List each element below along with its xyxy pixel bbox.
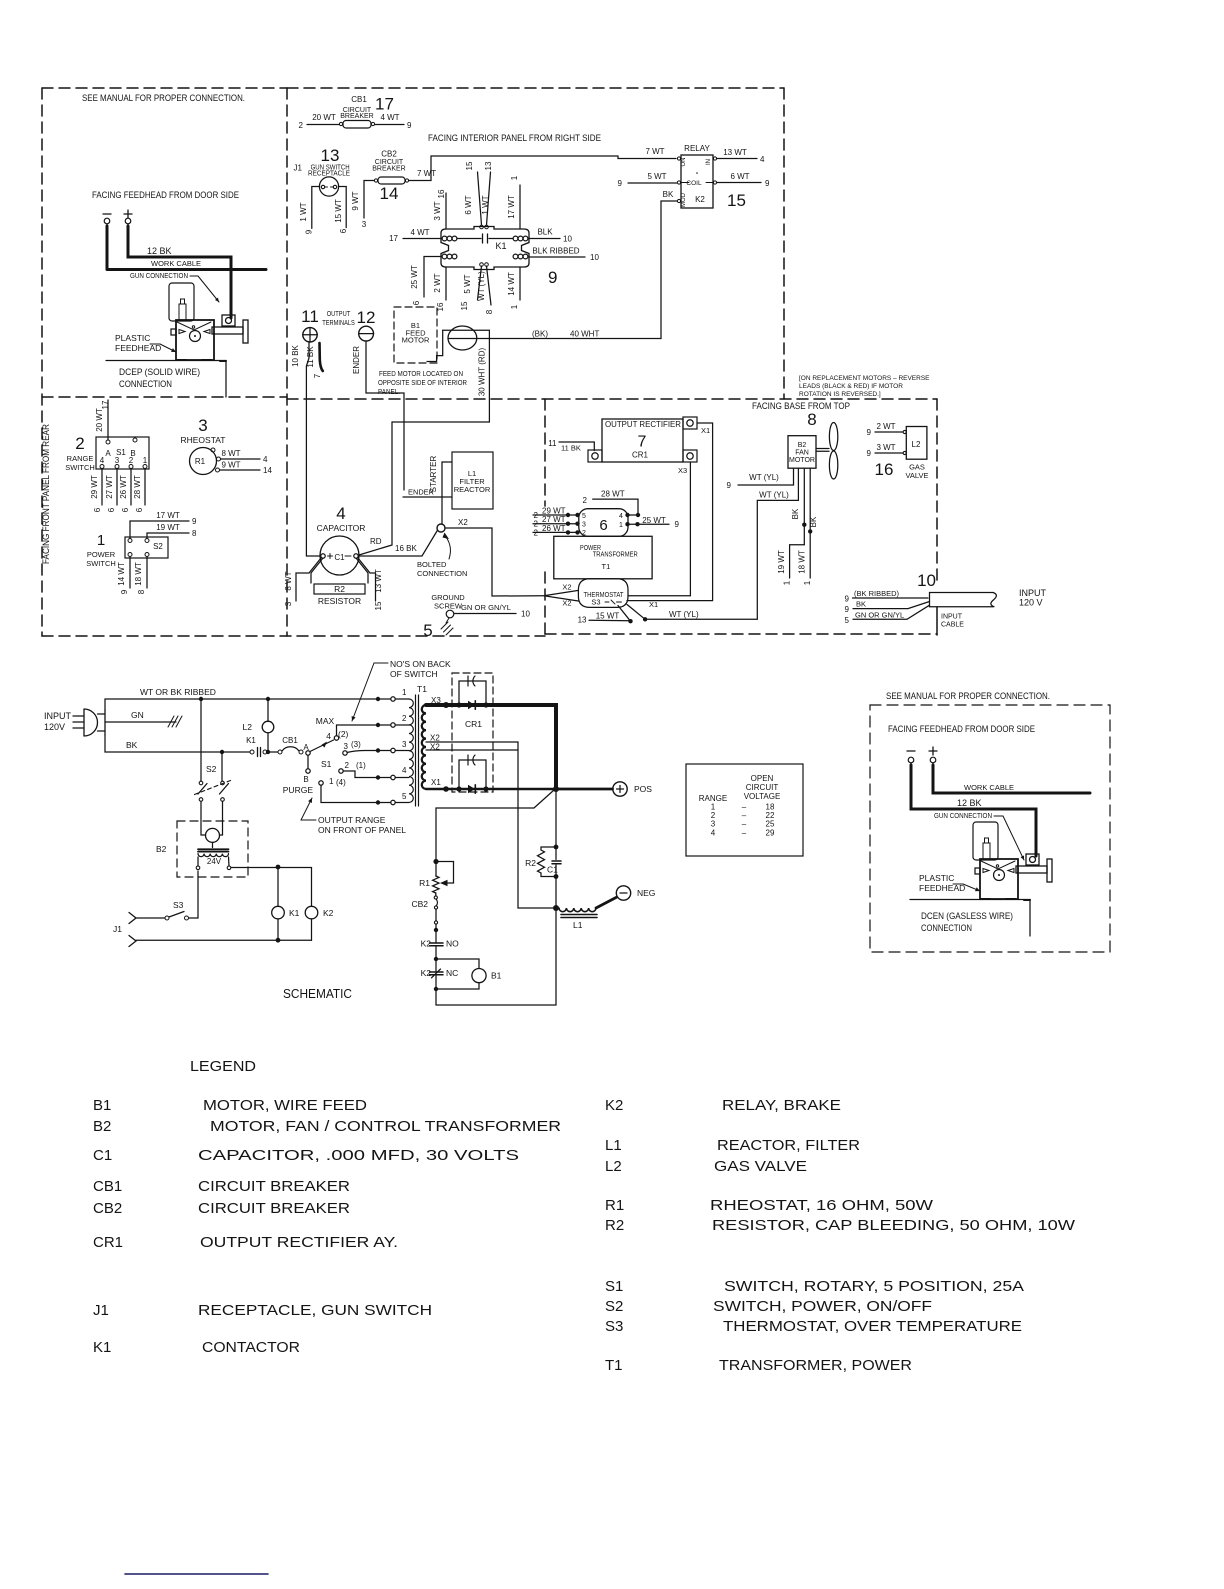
wire WT OR BK RIBBED	[105, 699, 378, 710]
svg-text:15: 15	[374, 601, 383, 610]
svg-text:7 WT: 7 WT	[645, 147, 664, 156]
svg-text:S1: S1	[321, 759, 332, 769]
svg-text:RD: RD	[370, 537, 382, 546]
thermostat S3	[544, 468, 799, 621]
snubber R2 / C1	[541, 789, 561, 905]
svg-text:2: 2	[402, 714, 407, 723]
svg-text:BOLTED: BOLTED	[417, 560, 447, 569]
svg-text:FACING BASE FROM TOP: FACING BASE FROM TOP	[752, 401, 850, 412]
svg-text:BK: BK	[126, 740, 138, 750]
svg-text:MOTOR: MOTOR	[789, 457, 815, 464]
wire 17 WT / 1 top-right	[519, 185, 521, 229]
wire 10 BK down to capacitor	[306, 342, 320, 556]
terminal +	[929, 750, 937, 752]
svg-text:8: 8	[807, 410, 816, 429]
svg-text:10: 10	[521, 610, 530, 619]
svg-text:1: 1	[97, 532, 105, 549]
svg-text:DCEP (SOLID WIRE): DCEP (SOLID WIRE)	[119, 367, 200, 378]
svg-text:28 WT: 28 WT	[133, 475, 142, 499]
svg-text:RANGE: RANGE	[67, 454, 94, 463]
svg-text:OUTPUT RECTIFIER: OUTPUT RECTIFIER	[605, 419, 681, 429]
rheostat R1	[436, 862, 454, 887]
wire work cable	[933, 765, 1090, 793]
baseline	[106, 360, 226, 362]
svg-text:7 WT: 7 WT	[417, 169, 436, 178]
baseline	[910, 899, 1030, 901]
svg-text:PLASTIC: PLASTIC	[115, 333, 150, 343]
svg-text:R1: R1	[605, 1197, 624, 1214]
svg-text:SEE MANUAL FOR PROPER CONNECTI: SEE MANUAL FOR PROPER CONNECTION.	[82, 93, 245, 104]
svg-text:SWITCH, ROTARY, 5 POSITION, 25: SWITCH, ROTARY, 5 POSITION, 25A	[724, 1278, 1024, 1295]
svg-text:CR1: CR1	[93, 1234, 123, 1251]
wire BK to motor	[661, 201, 677, 339]
svg-text:L2: L2	[912, 440, 921, 449]
svg-text:CB1: CB1	[351, 95, 367, 104]
svg-text:29: 29	[766, 828, 775, 837]
svg-text:15: 15	[460, 301, 469, 310]
svg-text:TERMINALS: TERMINALS	[322, 320, 355, 327]
svg-text:9: 9	[120, 589, 129, 594]
svg-text:18 WT: 18 WT	[798, 550, 807, 574]
svg-text:WORK CABLE: WORK CABLE	[151, 259, 201, 268]
svg-text:17: 17	[101, 400, 110, 409]
svg-text:RELAY, BRAKE: RELAY, BRAKE	[722, 1097, 841, 1114]
svg-text:1 WT: 1 WT	[299, 202, 308, 221]
terminal POS	[613, 782, 627, 796]
svg-text:3 WT: 3 WT	[433, 201, 442, 220]
svg-text:6: 6	[412, 300, 421, 305]
svg-text:VALVE: VALVE	[905, 471, 928, 480]
svg-text:BK: BK	[791, 508, 800, 519]
svg-text:WORK CABLE: WORK CABLE	[964, 783, 1014, 792]
svg-text:9: 9	[675, 520, 680, 529]
svg-text:GUN CONNECTION: GUN CONNECTION	[130, 273, 188, 280]
svg-text:WT (YL): WT (YL)	[759, 491, 789, 500]
svg-text:4: 4	[326, 731, 331, 741]
wire BLK / 10	[529, 238, 560, 240]
svg-text:15 WT: 15 WT	[596, 611, 620, 620]
gas valve L2 (16)	[875, 427, 927, 460]
wire 8 WT / 4	[221, 458, 261, 460]
svg-text:BREAKER: BREAKER	[372, 165, 405, 172]
svg-text:LEGEND: LEGEND	[190, 1058, 256, 1075]
DCEN connection box	[870, 705, 1110, 952]
svg-text:12 BK: 12 BK	[147, 246, 172, 256]
svg-text:6: 6	[121, 507, 130, 512]
svg-text:L1: L1	[573, 920, 583, 930]
svg-text:11: 11	[301, 307, 319, 326]
wire 5 WT / 15 bottom	[478, 266, 482, 300]
svg-text:J1: J1	[93, 1302, 109, 1319]
svg-text:PANEL.: PANEL.	[378, 387, 400, 396]
S1 pos (2) wire	[337, 725, 379, 736]
wire 17 WT / 9	[130, 521, 189, 539]
svg-text:2: 2	[345, 761, 350, 770]
svg-text:–: –	[742, 828, 747, 837]
svg-text:R2: R2	[334, 584, 345, 594]
terminal NEG	[616, 886, 630, 900]
wire 5 WT	[628, 182, 677, 184]
svg-text:6: 6	[599, 517, 607, 534]
svg-text:S3: S3	[173, 900, 184, 910]
svg-text:R2: R2	[605, 1217, 624, 1234]
svg-text:DCEN (GASLESS WIRE): DCEN (GASLESS WIRE)	[921, 911, 1013, 922]
switch S2 schematic	[195, 699, 231, 835]
svg-text:BREAKER: BREAKER	[340, 113, 373, 120]
svg-text:16: 16	[875, 460, 894, 479]
svg-text:(3): (3)	[351, 740, 361, 749]
svg-text:15 WT: 15 WT	[334, 199, 343, 223]
svg-text:K1: K1	[93, 1339, 111, 1356]
svg-text:1: 1	[329, 777, 334, 786]
svg-text:RHEOSTAT: RHEOSTAT	[180, 435, 225, 445]
svg-text:CB2: CB2	[93, 1200, 122, 1217]
svg-text:4: 4	[711, 828, 716, 837]
svg-text:ON FRONT OF PANEL: ON FRONT OF PANEL	[318, 825, 406, 835]
wire GN OR GN/YL / 10	[454, 613, 516, 615]
motor/transformer B2 schematic	[177, 821, 248, 877]
svg-text:8: 8	[192, 529, 197, 538]
svg-text:BK: BK	[809, 516, 818, 527]
svg-text:X2: X2	[562, 583, 571, 592]
svg-text:PURGE: PURGE	[283, 785, 314, 795]
wire 2 WT / 16 bottom	[445, 267, 447, 300]
svg-text:28 WT: 28 WT	[601, 490, 625, 499]
svg-text:L1: L1	[605, 1137, 622, 1154]
motor B1	[436, 911, 556, 1005]
X2 chevron arrow	[544, 590, 579, 601]
svg-text:ENDER: ENDER	[352, 346, 361, 374]
svg-text:CR1: CR1	[632, 451, 649, 460]
svg-text:13: 13	[578, 616, 587, 625]
svg-text:4: 4	[619, 513, 623, 520]
svg-text:X2: X2	[430, 734, 440, 743]
svg-text:14: 14	[380, 184, 399, 203]
wire 30 WHT (RD)	[392, 330, 489, 422]
svg-text:MOTOR: MOTOR	[402, 336, 430, 345]
svg-text:25 WT: 25 WT	[642, 516, 666, 525]
wire 16 BK to bolted connection	[358, 531, 437, 556]
svg-text:9: 9	[192, 517, 197, 526]
svg-text:5: 5	[845, 616, 850, 625]
svg-text:9: 9	[845, 595, 850, 604]
wire 8 WT / 3	[296, 558, 321, 601]
svg-text:9: 9	[845, 605, 850, 614]
svg-text:GN: GN	[131, 710, 144, 720]
svg-text:ENDER: ENDER	[408, 488, 435, 497]
svg-text:R2: R2	[525, 858, 536, 868]
svg-text:CAPACITOR: CAPACITOR	[317, 523, 366, 533]
T1 secondary coil	[422, 705, 426, 789]
svg-text:(1): (1)	[356, 761, 366, 770]
svg-text:19 WT: 19 WT	[777, 550, 786, 574]
bottom wire	[136, 939, 312, 941]
svg-text:17: 17	[375, 95, 394, 114]
coil K1	[272, 906, 285, 940]
svg-text:WT OR BK RIBBED: WT OR BK RIBBED	[140, 687, 216, 697]
svg-text:6: 6	[339, 228, 348, 233]
wires BK down from fan	[803, 468, 805, 545]
svg-text:2: 2	[583, 496, 588, 505]
wire 20 WT / 17	[107, 400, 109, 440]
svg-text:12: 12	[357, 308, 376, 327]
svg-text:12 BK: 12 BK	[957, 798, 982, 808]
svg-text:9: 9	[305, 229, 314, 234]
svg-text:OUTPUT RANGE: OUTPUT RANGE	[318, 815, 386, 825]
svg-text:GN OR GN/YL: GN OR GN/YL	[461, 603, 511, 612]
svg-text:WT (YL): WT (YL)	[749, 473, 779, 482]
svg-text:3: 3	[198, 416, 207, 435]
svg-text:NC: NC	[446, 968, 458, 978]
circuit breaker CB1 arc	[278, 747, 303, 754]
svg-text:29 WT: 29 WT	[90, 475, 99, 499]
wire X2 to thermostat	[445, 528, 544, 596]
svg-text:K2: K2	[421, 968, 432, 978]
svg-text:B1: B1	[93, 1097, 111, 1114]
svg-text:J1: J1	[294, 164, 303, 173]
svg-text:3: 3	[284, 601, 293, 606]
S1 pin 4	[100, 465, 104, 469]
wire GN + ground	[105, 721, 176, 723]
thermostat S3 schematic	[129, 871, 312, 947]
svg-text:INPUT: INPUT	[1019, 588, 1047, 598]
svg-text:FACING FRONT PANEL FROM REAR: FACING FRONT PANEL FROM REAR	[41, 424, 52, 564]
svg-text:SWITCH, POWER, ON/OFF: SWITCH, POWER, ON/OFF	[713, 1298, 932, 1315]
svg-text:3: 3	[362, 220, 367, 229]
svg-text:4: 4	[100, 456, 105, 465]
svg-text:3: 3	[344, 742, 349, 751]
svg-text:1: 1	[803, 580, 812, 585]
svg-text:5 WT: 5 WT	[463, 274, 472, 293]
svg-text:FACING FEEDHEAD FROM DOOR SIDE: FACING FEEDHEAD FROM DOOR SIDE	[888, 724, 1035, 735]
terminal +	[124, 213, 132, 215]
svg-text:S2: S2	[605, 1298, 623, 1315]
wire RD	[359, 422, 392, 555]
svg-text:11 BK: 11 BK	[306, 346, 315, 368]
svg-text:A: A	[303, 743, 309, 752]
svg-text:2: 2	[75, 434, 84, 453]
coil K2	[305, 906, 318, 940]
svg-text:X1: X1	[431, 778, 441, 787]
svg-text:C1: C1	[547, 865, 558, 875]
svg-text:4: 4	[263, 455, 268, 464]
svg-text:9: 9	[765, 179, 770, 188]
svg-text:17 WT: 17 WT	[507, 195, 516, 219]
svg-text:ROTATION IS REVERSED.]: ROTATION IS REVERSED.]	[799, 391, 881, 398]
wire 9 WT / 14	[220, 469, 261, 471]
wire to R1	[436, 790, 554, 876]
svg-text:FACING FEEDHEAD FROM DOOR SIDE: FACING FEEDHEAD FROM DOOR SIDE	[92, 190, 239, 201]
svg-text:20 WT: 20 WT	[95, 408, 104, 432]
wire 7 WT to relay	[409, 156, 677, 181]
plastic feedhead drawing	[169, 283, 194, 321]
svg-text:(BK): (BK)	[532, 330, 548, 339]
svg-text:T1: T1	[605, 1357, 623, 1374]
svg-text:9: 9	[727, 481, 732, 490]
svg-text:(4): (4)	[336, 778, 346, 787]
circuit breaker CB2	[434, 893, 437, 943]
svg-text:A: A	[105, 449, 111, 458]
svg-text:1: 1	[510, 304, 519, 309]
svg-text:14 WT: 14 WT	[117, 562, 126, 586]
svg-text:2: 2	[534, 520, 539, 529]
svg-text:C1: C1	[334, 553, 345, 562]
svg-text:7: 7	[313, 373, 322, 378]
svg-text:CIRCUIT: CIRCUIT	[746, 783, 779, 792]
wire WT (YL) to fan 1	[738, 468, 794, 485]
svg-text:R1: R1	[195, 457, 206, 466]
svg-text:2 WT: 2 WT	[876, 422, 895, 431]
wire STARTER	[442, 462, 452, 524]
svg-text:20 WT: 20 WT	[312, 113, 336, 122]
wire 13 WT / 4	[717, 158, 758, 160]
bottom mark	[125, 1573, 268, 1575]
svg-text:10: 10	[917, 571, 936, 590]
svg-text:SEE MANUAL FOR PROPER CONNECTI: SEE MANUAL FOR PROPER CONNECTION.	[886, 691, 1050, 702]
svg-text:PLASTIC: PLASTIC	[919, 873, 954, 883]
wire X1 vertical	[627, 423, 713, 601]
wire 15 WT / 6	[338, 187, 346, 228]
svg-text:FAN: FAN	[795, 450, 809, 457]
S1 pin 2	[129, 465, 133, 469]
svg-text:S1: S1	[605, 1278, 623, 1295]
svg-text:J1: J1	[113, 924, 122, 934]
wire 28 WT / 2	[593, 499, 638, 515]
wire ENDER horizontal	[403, 496, 452, 498]
svg-text:CB1: CB1	[93, 1178, 122, 1195]
wire 14 WT / 1 bottom-right	[519, 267, 521, 300]
svg-text:9: 9	[548, 268, 557, 287]
svg-text:24V: 24V	[207, 857, 222, 866]
svg-text:X2: X2	[562, 599, 571, 608]
S1 purge wire	[321, 785, 378, 803]
svg-text:26 WT: 26 WT	[542, 524, 566, 533]
svg-text:X2: X2	[458, 518, 468, 527]
S1 pos (1) wire	[343, 771, 378, 778]
wire 4 WT / 17 left	[403, 238, 441, 240]
wire ENDER	[366, 341, 404, 490]
relay contact K2 NC	[430, 969, 444, 1005]
svg-text:4: 4	[336, 504, 345, 523]
svg-text:6: 6	[107, 507, 116, 512]
X1 / POS wire	[426, 788, 553, 790]
svg-text:S2: S2	[206, 764, 217, 774]
wire 13 WT / 15	[358, 558, 376, 601]
svg-text:11: 11	[548, 439, 557, 448]
svg-text:6: 6	[135, 507, 144, 512]
svg-text:29 WT: 29 WT	[542, 507, 566, 516]
svg-text:S2: S2	[153, 542, 163, 551]
svg-text:K1: K1	[495, 241, 506, 251]
svg-text:9: 9	[618, 179, 623, 188]
svg-text:L2: L2	[243, 722, 253, 732]
wire 11 BK	[559, 442, 594, 451]
svg-text:GN OR GN/YL: GN OR GN/YL	[855, 610, 904, 619]
svg-text:TRANSFORMER: TRANSFORMER	[593, 550, 638, 559]
svg-text:RESISTOR: RESISTOR	[318, 596, 361, 606]
svg-text:OPEN: OPEN	[751, 774, 774, 783]
svg-text:3: 3	[115, 456, 120, 465]
lower diode loop	[459, 760, 486, 789]
leads to R2	[311, 558, 323, 583]
svg-text:6 WT: 6 WT	[464, 195, 473, 214]
wire 1 WT / 9	[312, 187, 320, 229]
wire 15 WT / 13	[589, 619, 631, 622]
svg-text:RECEPTACLE, GUN SWITCH: RECEPTACLE, GUN SWITCH	[198, 1302, 432, 1319]
svg-text:POWER: POWER	[87, 550, 116, 559]
wire 6 WT / 9	[717, 182, 762, 184]
svg-text:BLK: BLK	[537, 228, 553, 237]
wire 14 WT / 9	[129, 557, 131, 589]
svg-text:17 WT: 17 WT	[156, 511, 180, 520]
svg-text:FACING INTERIOR PANEL FROM RIG: FACING INTERIOR PANEL FROM RIGHT SIDE	[428, 133, 601, 144]
svg-text:B2: B2	[93, 1118, 111, 1135]
wire 9 WT / 3	[364, 181, 374, 219]
wire GN OR GN/YL / 5	[853, 605, 930, 619]
relay contact K2 NO	[430, 943, 444, 972]
wire X3 vertical	[628, 462, 690, 596]
wire 12 BK gun cable	[128, 226, 231, 318]
svg-text:CAPACITOR, .000 MFD, 30 VO: CAPACITOR, .000 MFD, 30 VOLTS	[198, 1147, 519, 1164]
rotary switch S1	[306, 725, 378, 803]
S1 pos (3) wire	[347, 751, 378, 753]
wire 3 WT / 16 top-left	[445, 193, 447, 229]
upper diode loop	[459, 681, 486, 705]
gas valve L2 coil	[262, 699, 274, 752]
wire 18 WT / 8	[146, 557, 148, 589]
svg-text:THERMOSTAT, OVER TEMPERATURE: THERMOSTAT, OVER TEMPERATURE	[723, 1318, 1022, 1335]
svg-text:S3: S3	[591, 598, 600, 607]
svg-text:1 WT: 1 WT	[481, 195, 490, 214]
svg-text:CIRCUIT BREAKER: CIRCUIT BREAKER	[198, 1178, 350, 1195]
svg-text:B: B	[303, 775, 308, 784]
feed motor B1	[394, 307, 437, 363]
wire 6 WT / 15	[478, 172, 482, 225]
svg-text:X3: X3	[678, 466, 687, 475]
svg-text:120 V: 120 V	[1019, 598, 1043, 608]
svg-text:B1: B1	[491, 971, 502, 981]
svg-text:K1: K1	[246, 736, 256, 745]
svg-text:IN: IN	[706, 159, 712, 165]
svg-text:19 WT: 19 WT	[156, 523, 180, 532]
svg-text:OF SWITCH: OF SWITCH	[390, 669, 438, 679]
svg-text:13 WT: 13 WT	[723, 148, 747, 157]
svg-text:26 WT: 26 WT	[119, 475, 128, 499]
svg-text:(BK RIBBED): (BK RIBBED)	[854, 589, 900, 598]
svg-text:1: 1	[510, 175, 519, 180]
svg-text:10 BK: 10 BK	[291, 344, 300, 366]
svg-text:REACTOR, FILTER: REACTOR, FILTER	[717, 1137, 860, 1154]
wire 25 WT / 6	[424, 257, 441, 298]
svg-text:C1: C1	[93, 1147, 112, 1164]
motor lead bracket	[427, 330, 443, 361]
svg-text:120V: 120V	[44, 722, 65, 732]
svg-text:OPPOSITE SIDE OF INTERIOR: OPPOSITE SIDE OF INTERIOR	[378, 378, 467, 387]
svg-text:5: 5	[423, 621, 432, 640]
range voltage table	[686, 764, 803, 856]
svg-text:2: 2	[534, 528, 539, 537]
wire BLK RIBBED / 10	[529, 256, 585, 258]
svg-text:GUN CONNECTION: GUN CONNECTION	[934, 813, 992, 820]
svg-text:POS: POS	[634, 784, 652, 794]
svg-text:9 WT: 9 WT	[221, 461, 240, 470]
svg-text:COIL: COIL	[686, 180, 702, 187]
svg-text:1: 1	[619, 522, 623, 529]
svg-text:GAS VALVE: GAS VALVE	[714, 1158, 807, 1175]
svg-text:WT (YL): WT (YL)	[669, 610, 699, 619]
wire BK	[105, 735, 250, 752]
svg-text:3 WT: 3 WT	[876, 443, 895, 452]
